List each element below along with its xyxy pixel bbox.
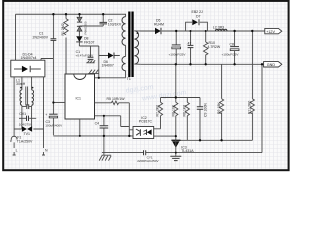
svg-text:IC1: IC1: [76, 97, 82, 101]
svg-text:P6KE200: P6KE200: [84, 21, 88, 34]
svg-text:+100uF/25V: +100uF/25V: [222, 53, 240, 57]
svg-text:TV1: TV1: [24, 132, 30, 136]
svg-text:+: +: [45, 113, 47, 117]
svg-text:1N4007: 1N4007: [102, 64, 114, 68]
svg-text:C8: C8: [230, 43, 235, 47]
svg-text:D7: D7: [196, 15, 201, 19]
svg-text:C4: C4: [95, 122, 100, 126]
svg-text:CX1: CX1: [19, 112, 26, 116]
svg-text:+12V: +12V: [266, 30, 275, 34]
svg-text:R5 10R/1W: R5 10R/1W: [107, 97, 126, 101]
svg-text:C9 100N: C9 100N: [204, 103, 208, 117]
svg-text:4.7R2W: 4.7R2W: [208, 45, 221, 49]
svg-text:L2 3R3: L2 3R3: [213, 25, 224, 29]
svg-text:2N2/400V: 2N2/400V: [33, 36, 49, 40]
svg-text:RU4M: RU4M: [154, 22, 164, 26]
svg-text:L: L: [16, 148, 18, 152]
svg-text:.47: .47: [187, 41, 192, 45]
svg-text:+0.47uF/50V: +0.47uF/50V: [75, 54, 94, 58]
svg-text:R9 18K: R9 18K: [217, 102, 221, 114]
svg-text:30mH: 30mH: [16, 82, 26, 86]
svg-text:2200P/AC250V: 2200P/AC250V: [137, 159, 159, 163]
svg-text:TL431A: TL431A: [181, 149, 194, 153]
svg-text:GND: GND: [267, 63, 276, 67]
svg-text:R11 2K0: R11 2K0: [248, 101, 252, 114]
svg-text:R7 2K0: R7 2K0: [156, 105, 160, 117]
svg-text:T1: T1: [127, 77, 131, 81]
svg-text:R1 2M2: R1 2M2: [61, 23, 65, 35]
svg-text:+100uF/25V: +100uF/25V: [169, 52, 187, 56]
svg-text:R6 1K8: R6 1K8: [183, 105, 187, 117]
svg-text:100uF/400V: 100uF/400V: [45, 124, 63, 128]
svg-text:1N4007x4: 1N4007x4: [21, 56, 37, 60]
svg-text:FR107: FR107: [84, 40, 95, 44]
svg-text:T1A/250V: T1A/250V: [17, 140, 33, 144]
svg-text:R8 10K: R8 10K: [171, 104, 175, 116]
svg-text:PC817C: PC817C: [139, 119, 153, 123]
svg-text:103/1KV: 103/1KV: [108, 23, 122, 27]
svg-text:EB2 2J: EB2 2J: [192, 10, 204, 14]
svg-text:104/275V: 104/275V: [19, 122, 33, 126]
